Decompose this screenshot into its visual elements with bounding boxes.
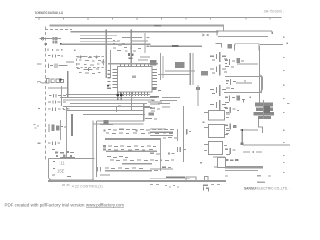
wire: feed to bus C	[49, 37, 61, 40]
transistor Q1 group	[76, 56, 101, 66]
logo mark 5b	[203, 185, 209, 192]
IC U1 right pins	[152, 69, 157, 88]
capacitor C1	[44, 43, 46, 45]
resistor array left of U1	[107, 70, 111, 89]
wire: row4 tails	[100, 170, 158, 175]
IC U11 body bar	[106, 150, 157, 152]
wire: bus row y97.5	[60, 97, 157, 98]
wire: left dashed border column	[45, 27, 47, 161]
wire: vertical x61	[61, 86, 62, 106]
terminal T1	[272, 31, 273, 34]
wire: dashed row y152	[243, 151, 262, 153]
header rule ticks	[39, 18, 270, 20]
dashed enclosure around input transistors	[77, 57, 104, 68]
op-amp U21 cluster	[226, 79, 252, 89]
svg-text:www.pdffactory.com: www.pdffactory.com	[86, 202, 125, 207]
wire: marks row y152-158 left	[150, 152, 175, 161]
wire: top supply bus A	[50, 25, 225, 27]
wire: horizontals from cap bank	[48, 87, 68, 88]
wire: dark segment y177	[166, 176, 185, 178]
IC U13 row 4 texture	[97, 167, 143, 171]
relay RY2 box	[209, 125, 225, 138]
wire: tilde lead left	[37, 82, 45, 84]
capacitor C5 cluster right of U1	[152, 88, 161, 91]
resistor network RN1 texture	[113, 40, 141, 52]
power transformer box bottom-left	[49, 159, 95, 180]
node: left stub dot y108	[38, 108, 40, 109]
capacitor C30 pair	[186, 129, 187, 135]
wire: vertical pair x145	[145, 33, 146, 53]
transformer T2 cluster	[48, 124, 66, 132]
node: dark dot left of U1	[107, 85, 109, 87]
wire: vertical pair x160	[160, 53, 161, 80]
right margin reference dots	[283, 37, 289, 174]
wire: vertical x60 low	[60, 120, 61, 140]
wire: line y170.5	[225, 170, 258, 171]
wire: bus row y106.5	[63, 106, 150, 107]
header model number text	[262, 9, 284, 13]
wire: bus row y100	[63, 100, 152, 101]
svg-text:, SM-750 (B/K) :: , SM-750 (B/K) :	[262, 9, 284, 13]
svg-text:4-22 CONTROL(1): 4-22 CONTROL(1)	[72, 183, 104, 188]
wire: relay pin dashes	[200, 112, 229, 163]
IC U1 left pins	[113, 69, 118, 88]
relay RY3 box	[209, 142, 223, 155]
wire: vertical x160 in box	[160, 138, 161, 171]
header rule	[35, 16, 282, 19]
wire: bus C right portion	[150, 46, 202, 47]
node: bus B junction at x106	[106, 29, 107, 34]
wire: sparse dashes y176	[225, 175, 271, 176]
wire: row2 tail marks	[177, 147, 186, 152]
IC U1 label	[132, 76, 136, 78]
wire: vertical x263	[263, 100, 264, 119]
wire: bus row y110.5	[66, 110, 143, 111]
wire: left stub y64	[37, 64, 41, 65]
wire: mid thick lines y131-135	[150, 132, 173, 134]
IC U11 DIP row 2	[103, 145, 156, 151]
wire: vertical x177	[177, 129, 178, 141]
wire: vertical x66 low	[66, 106, 67, 159]
wire: relay column stubs	[203, 112, 218, 168]
transistor Q12 group	[210, 85, 227, 96]
wire: vertical bus x110	[110, 50, 111, 78]
svg-text:⁚11: ⁚11	[59, 160, 65, 165]
wire: step wire below CN5	[258, 119, 262, 133]
caption text 4-22 CONTROL	[72, 183, 104, 188]
resistor R21 box	[201, 71, 208, 75]
title block small text above	[257, 182, 265, 183]
wire: plus mark	[243, 100, 244, 103]
input block box with bracket	[225, 75, 263, 93]
wire: right header lines	[216, 30, 217, 35]
wire: bus B	[71, 31, 219, 32]
connector CN5 dark cluster	[254, 103, 274, 119]
wire: long vertical x183	[183, 106, 184, 162]
wire: bus A dark segment	[154, 25, 161, 27]
transistor Q10 group	[210, 52, 227, 62]
capacitor bank row y78-84	[46, 78, 63, 82]
IC U1 main box	[118, 67, 153, 93]
svg-text:SCHEMATIC DIAGRAM, 4-22: SCHEMATIC DIAGRAM, 4-22	[35, 11, 63, 15]
wire: dashed stub row top-left	[45, 29, 72, 31]
connector CN1 pin with lead	[40, 37, 50, 40]
wire: dots left of T2	[34, 124, 39, 128]
jack J1 block	[216, 43, 284, 50]
wire: bus row y103	[70, 103, 147, 104]
wire: line y64 right	[237, 64, 258, 65]
capacitor C40	[241, 143, 244, 146]
wire: right thick bar y167	[225, 166, 263, 168]
wire: bottom bump	[186, 176, 208, 180]
wire: double line y168 with parts	[150, 166, 173, 169]
arrows: signal direction marks	[203, 34, 209, 37]
wire: long line y144.8	[243, 144, 290, 145]
wire: dash tails right of bus rows	[150, 96, 180, 107]
wire: bus row y94.5	[66, 94, 150, 95]
wire: line y130 right	[240, 130, 258, 131]
node: left mark y143	[38, 142, 41, 143]
wire: lines mid right	[165, 71, 195, 72]
wire: vertical x131 below IC	[131, 92, 132, 110]
transformer labels	[57, 160, 65, 173]
node: bus B junction at x131	[131, 29, 132, 34]
transistor Q2 group	[77, 68, 100, 74]
svg-text:SANSUI ELECTRIC CO.,LTD. ·: SANSUI ELECTRIC CO.,LTD. ·	[244, 187, 290, 191]
test point plus marks	[79, 55, 105, 71]
wire: row1 tail marks	[163, 137, 177, 139]
footer watermark text	[5, 202, 125, 207]
wire: bottom border inner line	[150, 177, 190, 180]
wire: vertical x198	[197, 85, 198, 106]
inductor L2 cluster	[48, 62, 74, 68]
wire: bus C mid	[61, 44, 151, 45]
relay K1 contact block	[52, 37, 57, 44]
wire: bus row y114.5	[83, 114, 145, 115]
wire: vertical bus x131	[131, 33, 133, 66]
inductor L1 cluster	[48, 54, 63, 57]
node: junction cross under IC	[117, 93, 119, 101]
inductor L3 cluster	[48, 108, 68, 111]
wire: dash triplet y160	[225, 159, 238, 161]
wire: stub at box top	[116, 106, 117, 112]
diode D3 cluster	[48, 142, 60, 145]
transistor Q11 group	[210, 65, 227, 76]
wire: dot row right of L3	[63, 108, 70, 110]
svg-text:15E: 15E	[57, 169, 65, 174]
wire: thick vertical bar x67	[67, 71, 69, 97]
header title text	[35, 11, 63, 15]
resistor cluster right-low	[225, 148, 236, 155]
IC U3 dark block	[175, 62, 185, 68]
wire: vertical x242	[242, 131, 243, 144]
rectifier cluster bottom-left	[55, 151, 75, 158]
IC U1 bottom pins	[120, 92, 148, 96]
IC U2 dark block	[150, 60, 156, 66]
resistor R30 with lead	[196, 87, 200, 90]
lower logic box outer border	[93, 105, 144, 180]
IC U10 body bar	[105, 138, 161, 140]
filter cluster right-mid	[225, 107, 239, 115]
relay RY4 box	[218, 158, 226, 168]
wire: bus A right drop	[223, 26, 224, 31]
IC U1 top pins	[120, 65, 149, 67]
node: right margin dot	[287, 43, 289, 44]
wire: dotted marks under border	[150, 184, 220, 187]
wire: thick vertical bar x72	[71, 114, 73, 136]
op-amp U22 cluster	[225, 95, 251, 102]
diode cluster left extras	[48, 49, 76, 103]
filter cluster row2	[225, 124, 236, 135]
wire: lines under bus B left	[80, 35, 148, 41]
wire: vertical bus x106	[106, 33, 107, 78]
capacitor C8 dark pins	[128, 53, 134, 59]
wire: vertical x143 upper	[143, 104, 144, 121]
wire: marks near x150 y107	[150, 108, 160, 112]
wire: dashes under transformer	[62, 185, 70, 186]
IC U10 DIP row 1	[104, 129, 174, 134]
wire: long vertical x259	[259, 46, 260, 103]
wire: stubs left of U2	[138, 37, 150, 61]
IC U13 body bar	[105, 170, 152, 172]
capacitor cluster bottom-left extras	[52, 149, 72, 157]
wire: vertical bus pair x190	[190, 53, 191, 85]
IC U12 body bar	[122, 163, 152, 164]
bottom frame border	[48, 180, 226, 182]
transformer tick marks	[52, 161, 71, 177]
transistor Q13 group	[210, 100, 227, 111]
diode D1 cluster	[49, 94, 61, 97]
op-amp U20 cluster	[225, 58, 244, 68]
relay RY1 box	[209, 111, 225, 121]
svg-text:PDF created with pdfFactory tr: PDF created with pdfFactory trial versio…	[5, 202, 86, 207]
node: dark dot at cap bank	[60, 79, 62, 81]
diode D2 cluster	[48, 100, 61, 103]
node: junction dot	[60, 43, 62, 45]
IC U12 row 3 texture	[107, 156, 154, 161]
crystal Y1 marks left of box	[143, 100, 162, 120]
IC U1 top bus	[108, 63, 158, 65]
title block text	[244, 187, 290, 191]
wire: bus C dark mark	[172, 45, 179, 47]
node: junction dot y130	[241, 129, 243, 131]
dark mark row y120	[104, 120, 109, 124]
